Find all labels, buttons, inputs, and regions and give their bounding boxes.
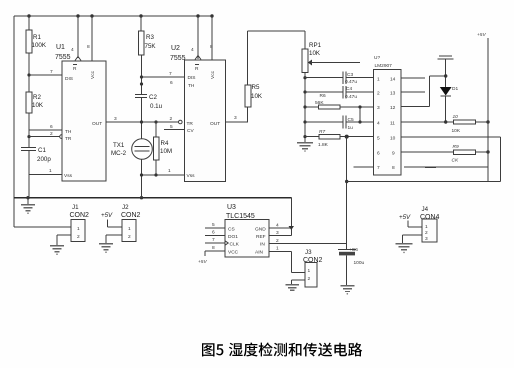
- svg-text:+5V: +5V: [477, 32, 486, 38]
- svg-text:C4: C4: [346, 86, 352, 92]
- svg-text:3: 3: [114, 116, 117, 122]
- svg-text:7: 7: [50, 69, 53, 75]
- svg-text:Vss: Vss: [187, 173, 196, 179]
- svg-text:+5V: +5V: [399, 214, 411, 221]
- svg-text:MC-2: MC-2: [111, 150, 127, 157]
- svg-text:CK: CK: [452, 158, 459, 164]
- svg-text:Vcc: Vcc: [90, 70, 96, 79]
- svg-text:7555: 7555: [170, 55, 186, 62]
- svg-text:TR: TR: [65, 136, 72, 142]
- svg-text:4: 4: [191, 47, 194, 53]
- svg-text:R3: R3: [146, 34, 154, 41]
- svg-text:C1: C1: [38, 147, 46, 154]
- svg-text:R1: R1: [33, 34, 41, 41]
- svg-text:1u: 1u: [348, 125, 354, 131]
- svg-text:R: R: [195, 66, 199, 72]
- svg-text:TR: TR: [187, 121, 194, 127]
- svg-text:7555: 7555: [55, 54, 71, 61]
- svg-text:75K: 75K: [145, 43, 157, 50]
- svg-text:14: 14: [390, 77, 396, 83]
- svg-text:3: 3: [276, 230, 279, 236]
- svg-text:CON2: CON2: [121, 212, 141, 219]
- svg-text:TLC1545: TLC1545: [226, 213, 255, 220]
- svg-text:+5V: +5V: [101, 212, 113, 219]
- svg-text:4: 4: [276, 223, 279, 229]
- svg-text:10M: 10M: [160, 148, 172, 155]
- svg-text:IN: IN: [260, 242, 265, 248]
- svg-text:7: 7: [212, 237, 215, 243]
- svg-text:R2: R2: [33, 94, 41, 101]
- svg-text:2: 2: [308, 276, 311, 282]
- svg-text:OUT: OUT: [210, 121, 220, 127]
- svg-text:TH: TH: [65, 129, 72, 135]
- svg-text:J2: J2: [122, 204, 129, 211]
- svg-text:8: 8: [87, 44, 90, 50]
- svg-text:OUT: OUT: [92, 121, 102, 127]
- svg-text:Vcc: Vcc: [210, 70, 216, 79]
- svg-text:CLK: CLK: [230, 242, 240, 248]
- svg-text:R7: R7: [319, 129, 325, 135]
- svg-text:C5: C5: [348, 117, 354, 123]
- svg-text:AIN: AIN: [255, 249, 264, 255]
- svg-text:0.47u: 0.47u: [345, 94, 357, 100]
- svg-text:8: 8: [392, 165, 395, 171]
- svg-text:REF: REF: [256, 234, 266, 240]
- svg-text:Vss: Vss: [64, 173, 73, 179]
- svg-text:GND: GND: [255, 226, 266, 232]
- svg-text:1: 1: [128, 226, 131, 232]
- svg-text:3: 3: [234, 115, 237, 121]
- svg-text:CS: CS: [228, 226, 235, 232]
- svg-text:6: 6: [212, 230, 215, 236]
- svg-text:6: 6: [170, 80, 173, 86]
- svg-text:12: 12: [390, 105, 396, 111]
- svg-text:9: 9: [392, 151, 395, 157]
- svg-text:4: 4: [377, 121, 380, 127]
- svg-text:1.8K: 1.8K: [318, 142, 329, 148]
- svg-text:2: 2: [128, 234, 131, 240]
- svg-text:3: 3: [425, 236, 428, 242]
- svg-text:10K: 10K: [251, 93, 263, 100]
- svg-text:100u: 100u: [354, 260, 365, 266]
- svg-text:DIS: DIS: [65, 76, 73, 82]
- svg-text:DO1: DO1: [228, 234, 238, 240]
- svg-text:J1: J1: [72, 204, 79, 211]
- svg-text:7: 7: [169, 71, 172, 77]
- svg-text:56K: 56K: [315, 100, 324, 106]
- svg-text:5: 5: [212, 222, 215, 228]
- svg-text:8: 8: [212, 245, 215, 251]
- svg-text:10K: 10K: [309, 50, 321, 57]
- svg-text:10K: 10K: [452, 128, 461, 134]
- svg-text:U2: U2: [171, 45, 180, 52]
- svg-text:C3: C3: [347, 72, 353, 78]
- svg-text:6: 6: [50, 124, 53, 130]
- svg-text:U1: U1: [56, 44, 65, 51]
- svg-text:LM2907: LM2907: [375, 63, 393, 69]
- svg-text:R6: R6: [320, 93, 326, 99]
- svg-text:R5: R5: [252, 84, 260, 91]
- svg-text:2: 2: [276, 238, 279, 244]
- svg-text:U?: U?: [374, 55, 380, 61]
- svg-text:TH: TH: [188, 83, 195, 89]
- svg-text:+5V: +5V: [198, 259, 207, 265]
- svg-text:1: 1: [276, 246, 279, 252]
- svg-text:100K: 100K: [32, 42, 47, 49]
- svg-text:13: 13: [390, 91, 396, 97]
- svg-text:1: 1: [308, 268, 311, 274]
- svg-text:CON2: CON2: [70, 212, 90, 219]
- svg-text:200p: 200p: [37, 156, 51, 163]
- svg-text:6: 6: [377, 151, 380, 157]
- svg-text:4: 4: [71, 47, 74, 53]
- svg-text:2: 2: [377, 91, 380, 97]
- svg-text:8: 8: [210, 44, 213, 50]
- svg-text:10: 10: [453, 114, 459, 120]
- svg-text:0.47u: 0.47u: [345, 79, 357, 85]
- svg-text:10K: 10K: [32, 102, 44, 109]
- svg-text:5: 5: [170, 124, 173, 130]
- svg-text:5: 5: [377, 136, 380, 142]
- svg-text:D1: D1: [452, 86, 458, 92]
- svg-text:10: 10: [390, 136, 396, 142]
- svg-text:2: 2: [50, 131, 53, 137]
- svg-text:DIS: DIS: [188, 75, 196, 81]
- svg-text:J3: J3: [305, 249, 312, 256]
- svg-text:U3: U3: [227, 204, 236, 211]
- svg-text:0.1u: 0.1u: [150, 103, 163, 110]
- svg-text:R: R: [73, 66, 77, 72]
- svg-text:J4: J4: [422, 206, 429, 213]
- svg-text:1: 1: [377, 77, 380, 83]
- svg-text:VCC: VCC: [228, 249, 239, 255]
- svg-text:1: 1: [77, 226, 80, 232]
- svg-text:RP1: RP1: [309, 42, 322, 49]
- svg-text:2: 2: [425, 230, 428, 236]
- svg-text:R4: R4: [161, 140, 169, 147]
- svg-text:TX1: TX1: [113, 142, 125, 149]
- svg-text:1: 1: [425, 224, 428, 230]
- svg-text:11: 11: [390, 121, 395, 127]
- svg-text:C2: C2: [149, 94, 157, 101]
- svg-text:3: 3: [377, 105, 380, 111]
- svg-text:CV: CV: [187, 128, 194, 134]
- svg-text:1: 1: [168, 168, 171, 174]
- svg-text:1: 1: [49, 168, 52, 174]
- svg-text:R9: R9: [453, 144, 459, 150]
- svg-text:2: 2: [170, 116, 173, 122]
- svg-text:2: 2: [77, 234, 80, 240]
- svg-text:7: 7: [377, 165, 380, 171]
